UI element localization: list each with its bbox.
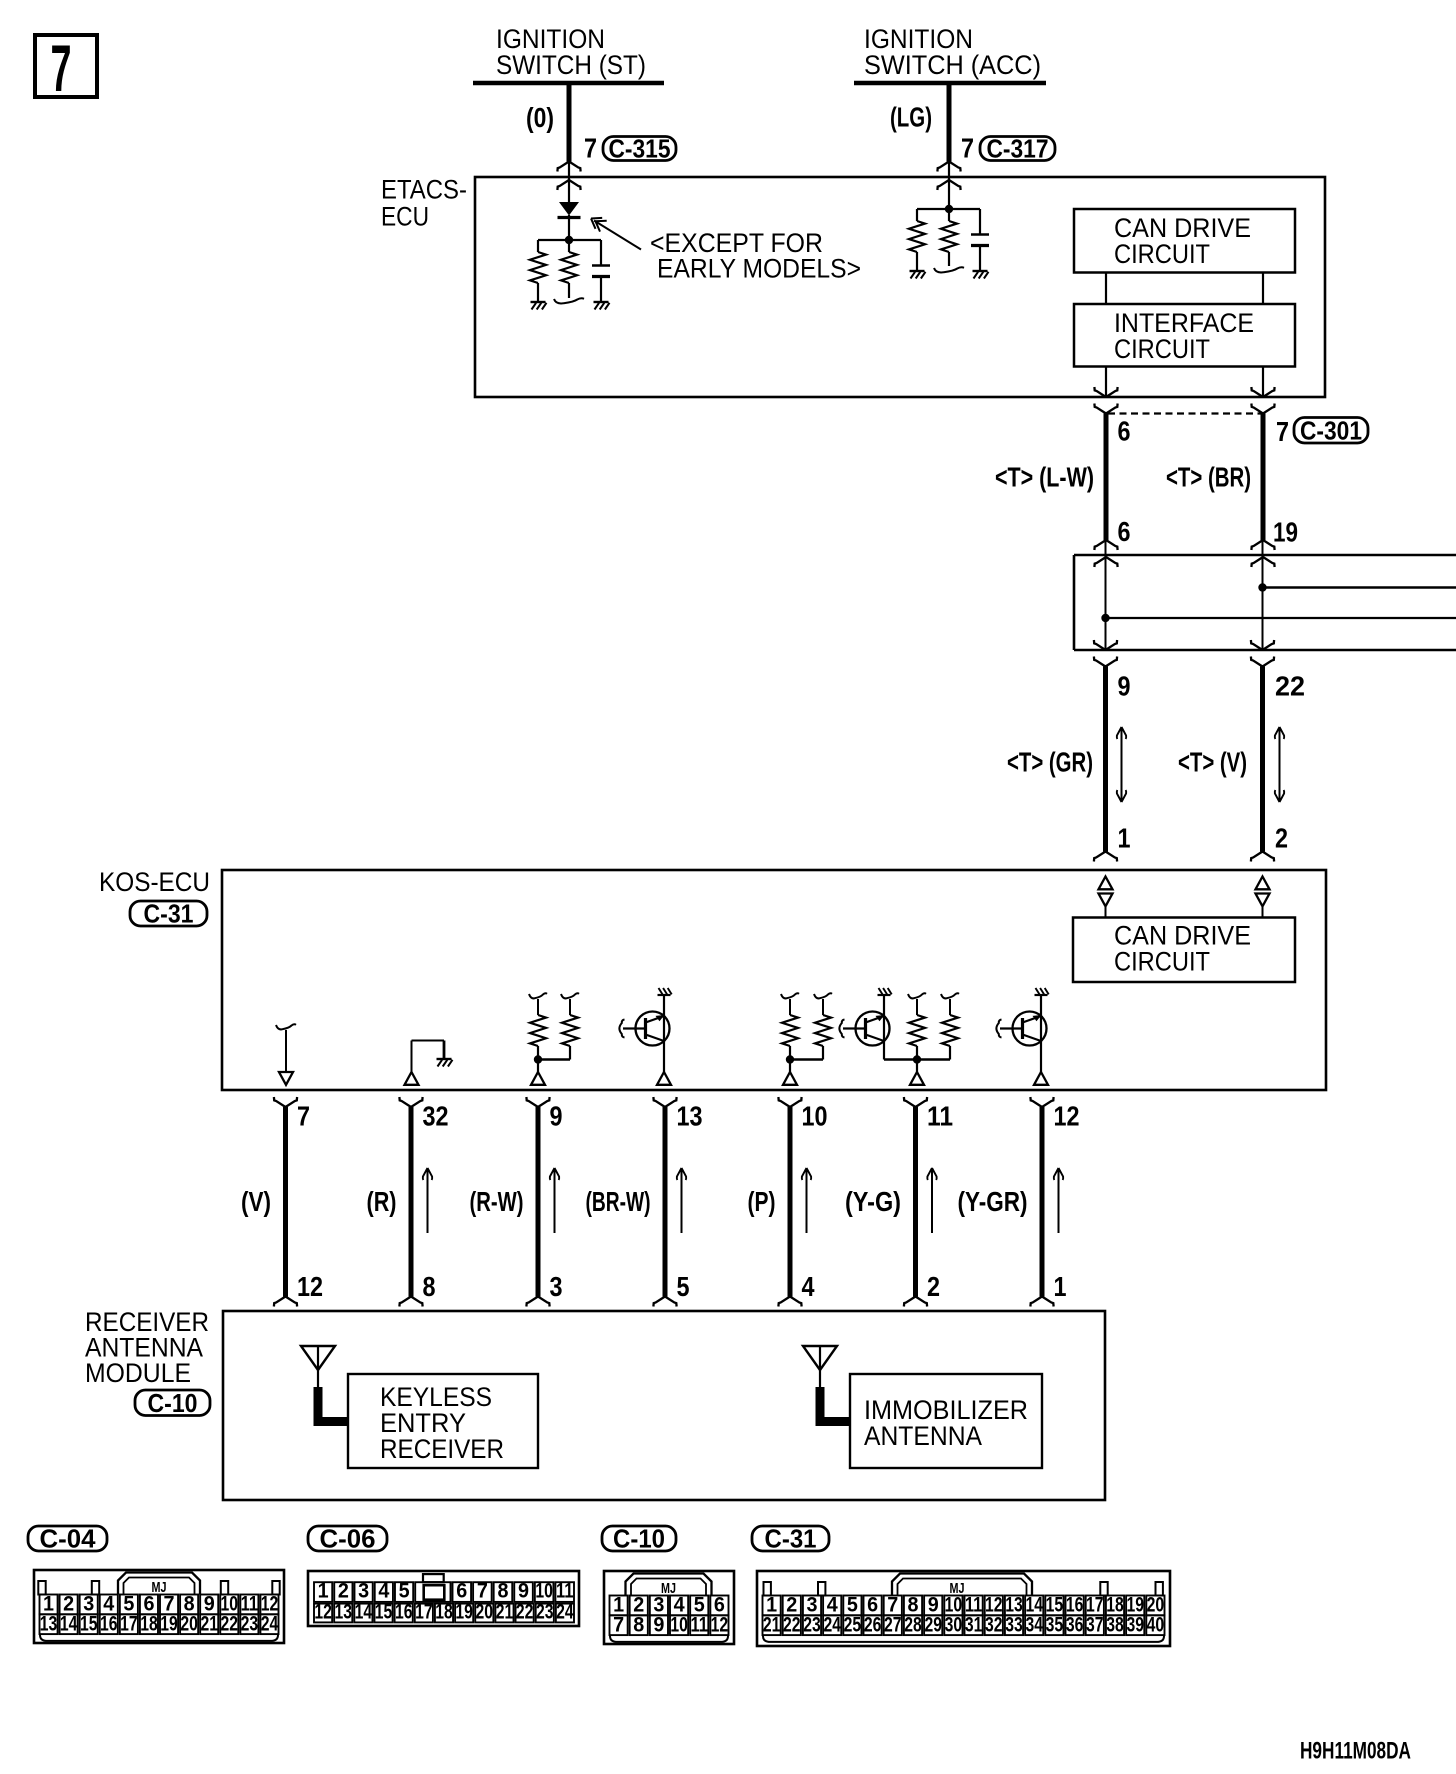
svg-text:20: 20 (180, 1612, 198, 1635)
svg-text:(Y-GR): (Y-GR) (958, 1186, 1028, 1217)
svg-text:2: 2 (338, 1580, 349, 1603)
svg-text:17: 17 (415, 1601, 433, 1624)
svg-text:38: 38 (1106, 1613, 1124, 1636)
svg-text:ANTENNA: ANTENNA (864, 1421, 982, 1451)
svg-text:ETACS-: ETACS- (381, 175, 467, 205)
svg-text:1: 1 (1054, 1271, 1067, 1302)
svg-text:39: 39 (1126, 1613, 1144, 1636)
svg-text:23: 23 (803, 1613, 821, 1636)
svg-text:MJ: MJ (152, 1580, 167, 1596)
svg-text:6: 6 (1118, 416, 1131, 447)
svg-text:MJ: MJ (950, 1581, 965, 1597)
svg-text:27: 27 (884, 1613, 902, 1636)
svg-text:SWITCH (ST): SWITCH (ST) (496, 50, 646, 80)
svg-text:18: 18 (140, 1612, 158, 1635)
svg-text:18: 18 (435, 1601, 453, 1624)
svg-text:8: 8 (497, 1580, 508, 1603)
svg-text:37: 37 (1086, 1613, 1104, 1636)
svg-text:21: 21 (200, 1612, 218, 1635)
svg-text:9: 9 (518, 1580, 529, 1603)
svg-text:15: 15 (80, 1612, 98, 1635)
svg-text:11: 11 (927, 1101, 953, 1132)
svg-text:22: 22 (1275, 671, 1305, 702)
svg-text:10: 10 (670, 1613, 688, 1636)
svg-text:13: 13 (334, 1601, 352, 1624)
svg-text:1: 1 (1118, 823, 1131, 854)
svg-text:SWITCH (ACC): SWITCH (ACC) (864, 50, 1041, 80)
svg-text:3: 3 (550, 1271, 563, 1302)
svg-text:CIRCUIT: CIRCUIT (1114, 239, 1210, 269)
svg-text:24: 24 (556, 1601, 574, 1624)
svg-text:2: 2 (1275, 823, 1288, 854)
svg-text:24: 24 (261, 1612, 279, 1635)
svg-text:28: 28 (904, 1613, 922, 1636)
svg-text:<T> (V): <T> (V) (1178, 747, 1247, 778)
svg-text:3: 3 (358, 1580, 369, 1603)
svg-text:36: 36 (1066, 1613, 1084, 1636)
svg-text:C-06: C-06 (320, 1524, 376, 1554)
svg-text:11: 11 (556, 1580, 574, 1603)
svg-text:CIRCUIT: CIRCUIT (1114, 334, 1210, 364)
svg-text:(LG): (LG) (890, 102, 932, 133)
svg-text:C-317: C-317 (987, 134, 1049, 164)
svg-text:CIRCUIT: CIRCUIT (1114, 947, 1210, 977)
svg-text:12: 12 (711, 1613, 729, 1636)
svg-text:9: 9 (653, 1613, 664, 1636)
svg-text:6: 6 (1118, 516, 1131, 547)
svg-text:(0): (0) (526, 102, 554, 133)
svg-text:5: 5 (399, 1580, 410, 1603)
svg-text:23: 23 (241, 1612, 259, 1635)
svg-text:C-10: C-10 (613, 1524, 665, 1554)
svg-text:16: 16 (395, 1601, 413, 1624)
svg-text:8: 8 (423, 1271, 436, 1302)
svg-text:7: 7 (1276, 416, 1289, 447)
svg-text:KOS-ECU: KOS-ECU (99, 867, 210, 897)
svg-text:34: 34 (1025, 1613, 1043, 1636)
svg-text:7: 7 (961, 133, 974, 164)
svg-text:26: 26 (864, 1613, 882, 1636)
svg-text:19: 19 (455, 1601, 473, 1624)
svg-text:16: 16 (100, 1612, 118, 1635)
svg-text:22: 22 (221, 1612, 239, 1635)
svg-text:19: 19 (160, 1612, 178, 1635)
svg-text:<T> (L-W): <T> (L-W) (995, 462, 1094, 493)
svg-text:15: 15 (375, 1601, 393, 1624)
svg-text:C-301: C-301 (1300, 415, 1362, 445)
svg-text:7: 7 (297, 1101, 310, 1132)
svg-text:12: 12 (297, 1271, 323, 1302)
svg-text:13: 13 (40, 1612, 58, 1635)
svg-text:32: 32 (423, 1101, 449, 1132)
svg-text:MJ: MJ (661, 1581, 676, 1597)
svg-text:14: 14 (355, 1601, 373, 1624)
svg-text:2: 2 (927, 1271, 940, 1302)
svg-text:7: 7 (51, 31, 72, 105)
svg-text:(V): (V) (241, 1186, 271, 1217)
svg-text:19: 19 (1273, 517, 1298, 548)
svg-text:33: 33 (1005, 1613, 1023, 1636)
svg-text:1: 1 (318, 1580, 329, 1603)
svg-text:7: 7 (477, 1580, 488, 1603)
svg-text:C-10: C-10 (148, 1388, 198, 1418)
svg-text:22: 22 (516, 1601, 534, 1624)
svg-text:5: 5 (677, 1271, 690, 1302)
svg-text:9: 9 (1118, 671, 1131, 702)
svg-text:17: 17 (120, 1612, 138, 1635)
svg-text:31: 31 (965, 1613, 983, 1636)
svg-text:40: 40 (1147, 1613, 1165, 1636)
svg-text:24: 24 (823, 1613, 841, 1636)
svg-text:21: 21 (763, 1613, 781, 1636)
svg-text:<T> (BR): <T> (BR) (1166, 462, 1251, 493)
svg-text:13: 13 (677, 1101, 703, 1132)
svg-text:30: 30 (945, 1613, 963, 1636)
svg-text:12: 12 (314, 1601, 332, 1624)
svg-text:(R): (R) (367, 1186, 397, 1217)
svg-text:C-31: C-31 (765, 1524, 817, 1554)
svg-text:H9H11M08DA: H9H11M08DA (1300, 1738, 1411, 1765)
svg-text:10: 10 (802, 1101, 828, 1132)
svg-text:(R-W): (R-W) (470, 1186, 524, 1217)
svg-text:ECU: ECU (381, 202, 429, 232)
svg-text:7: 7 (613, 1613, 624, 1636)
svg-text:25: 25 (844, 1613, 862, 1636)
svg-text:8: 8 (633, 1613, 644, 1636)
svg-text:35: 35 (1046, 1613, 1064, 1636)
svg-text:MODULE: MODULE (85, 1358, 191, 1388)
svg-text:29: 29 (924, 1613, 942, 1636)
svg-text:23: 23 (536, 1601, 554, 1624)
svg-text:EARLY MODELS>: EARLY MODELS> (657, 254, 861, 284)
svg-text:7: 7 (584, 133, 597, 164)
svg-text:22: 22 (783, 1613, 801, 1636)
svg-text:21: 21 (496, 1601, 514, 1624)
svg-text:C-04: C-04 (40, 1524, 97, 1554)
svg-text:12: 12 (1054, 1101, 1080, 1132)
svg-text:11: 11 (691, 1613, 709, 1636)
svg-text:(P): (P) (748, 1186, 776, 1217)
svg-text:RECEIVER: RECEIVER (380, 1434, 504, 1464)
svg-text:4: 4 (802, 1271, 815, 1302)
svg-text:20: 20 (476, 1601, 494, 1624)
svg-text:32: 32 (985, 1613, 1003, 1636)
svg-text:4: 4 (378, 1580, 389, 1603)
svg-text:(BR-W): (BR-W) (586, 1186, 651, 1217)
svg-text:6: 6 (456, 1580, 467, 1603)
svg-text:(Y-G): (Y-G) (845, 1186, 901, 1217)
svg-text:9: 9 (550, 1101, 563, 1132)
svg-text:C-31: C-31 (144, 899, 194, 929)
svg-text:14: 14 (60, 1612, 78, 1635)
svg-text:C-315: C-315 (609, 134, 671, 164)
svg-text:10: 10 (535, 1580, 553, 1603)
svg-text:<T> (GR): <T> (GR) (1007, 747, 1093, 778)
